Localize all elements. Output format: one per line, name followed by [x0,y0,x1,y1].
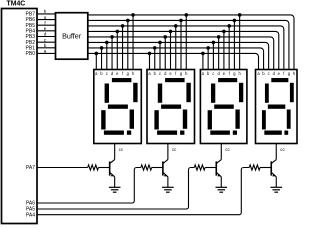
junction dot bus d / DS2 [163,35,167,39]
bus wire e from buffer to DS4 pin e [88,31,279,69]
junction dot bus e / DS3 [222,30,226,34]
svg-text:g: g [44,15,47,20]
wire tap DS1 pin b [101,48,103,70]
wire R1 to Q1 base [98,167,109,169]
svg-text:c: c [106,71,108,76]
svg-text:PB0: PB0 [26,51,36,57]
wire Q3 emitter to ground [220,177,222,188]
display DS1 (7-segment) [94,70,142,144]
junction dot bus a / DS2 [148,52,152,56]
svg-text:b: b [44,43,47,48]
wire tap DS3 pin d [218,37,220,70]
display DS2 (7-segment) [147,70,195,144]
display DS4 (7-segment) [256,70,298,144]
junction dot bus g / DS3 [233,19,237,23]
wire Q2 emitter to ground [167,177,169,188]
wire tap DS2 pin a [149,53,151,69]
wire tap DS1 pin f [122,26,124,70]
wire tap DS2 pin b [154,48,156,70]
svg-text:PA7: PA7 [26,165,35,171]
junction dot bus h / DS1 [131,13,135,17]
wire PA5 horizontal run [37,168,194,210]
bus wire c from buffer to DS4 pin c [88,42,269,69]
junction dot bus b / DS1 [100,46,104,50]
svg-text:Buffer: Buffer [62,31,82,40]
resistor R1 [88,165,99,170]
junction dot bus c / DS1 [105,41,109,45]
junction dot bus g / DS1 [126,19,130,23]
transistor Q3 NPN [216,160,221,177]
bus wire a from buffer to DS4 pin a [88,53,259,69]
wire tap DS2 pin c [159,42,161,69]
wire tap DS2 pin e [170,31,172,69]
junction dot bus b / DS2 [153,46,157,50]
wire tap DS2 pin h [185,15,187,70]
junction dot bus d / DS3 [217,35,221,39]
junction dot bus e / DS2 [169,30,173,34]
wire DS2 common cathode pin [167,144,169,160]
transistor Q1 NPN [110,160,115,177]
wire tap DS1 pin a [95,53,97,69]
bus wire b from buffer to DS4 pin b [88,48,264,70]
ground symbol G4 [270,187,282,192]
wire R4 to Q4 base [260,167,271,169]
bus wire h from buffer to DS4 pin h [88,15,294,70]
junction dot bus h / DS3 [238,13,242,17]
svg-text:e: e [44,26,47,31]
resistor R4 [249,165,260,170]
resistor R2 [141,165,152,170]
ground symbol G1 [109,187,121,192]
wire tap DS3 pin g [233,20,235,69]
junction dot bus f / DS1 [121,24,125,28]
wire tap DS2 pin g [180,20,182,69]
transistor Q4 NPN [271,160,276,177]
svg-text:TM4C: TM4C [7,0,26,7]
wire tap DS2 pin d [164,37,166,70]
junction dot bus f / DS3 [227,24,231,28]
wire DS4 common cathode pin [275,144,277,160]
junction dot bus h / DS2 [184,13,188,17]
wire PB7 to buffer input h [37,13,56,15]
junction dot bus c / DS2 [158,41,162,45]
wire tap DS3 pin a [202,53,204,69]
wire DS3 common cathode pin [220,144,222,160]
resistor R3 [194,165,205,170]
bus wire d from buffer to DS4 pin d [88,37,274,70]
wire PB3 to buffer input d [37,36,56,38]
bus wire f from buffer to DS4 pin f [88,26,284,70]
wire PB6 to buffer input g [37,19,56,21]
display DS3 (7-segment) [200,70,247,144]
wire Q1 emitter to ground [114,177,116,188]
svg-text:PA4: PA4 [26,212,35,218]
wire DS1 common cathode pin [114,144,116,160]
wire R2 to Q2 base [152,167,163,169]
wire PB4 to buffer input e [37,30,56,32]
ground symbol G3 [215,187,227,192]
wire tap DS2 pin f [175,26,177,70]
buffer U2 [56,13,88,60]
IC U1 TM4C microcontroller [2,9,38,224]
wire PB2 to buffer input c [37,41,56,43]
junction dot bus c / DS3 [212,41,216,45]
svg-text:c: c [159,71,161,76]
junction dot bus a / DS3 [201,52,205,56]
wire tap DS3 pin c [212,42,214,69]
junction dot bus b / DS3 [206,46,210,50]
svg-text:c: c [268,71,270,76]
wire tap DS1 pin c [106,42,108,69]
svg-text:h: h [44,9,47,14]
wire tap DS1 pin d [111,37,113,70]
wire PB1 to buffer input b [37,47,56,49]
wire tap DS1 pin h [132,15,134,70]
wire PA6 horizontal run [37,168,141,204]
wire Q4 emitter to ground [275,177,277,188]
junction dot bus g / DS2 [179,19,183,23]
wire tap DS1 pin g [127,20,129,69]
wire R3 to Q3 base [205,167,216,169]
transistor Q2 NPN [163,160,168,177]
bus wire g from buffer to DS4 pin g [88,20,289,69]
ground symbol G2 [162,187,174,192]
wire PA4 horizontal run [37,168,249,215]
wire tap DS3 pin f [228,26,230,70]
svg-text:a: a [44,49,47,54]
wire tap DS3 pin b [207,48,209,70]
svg-text:c: c [212,71,214,76]
junction dot bus e / DS1 [116,30,120,34]
junction dot bus d / DS1 [110,35,114,39]
svg-text:d: d [44,32,47,37]
wire tap DS3 pin e [223,31,225,69]
wire PA7 to R1 [37,167,88,169]
junction dot bus a / DS1 [95,52,99,56]
wire tap DS1 pin e [116,31,118,69]
wire PB5 to buffer input f [37,24,56,26]
junction dot bus f / DS2 [174,24,178,28]
wire tap DS3 pin h [239,15,241,70]
wire PB0 to buffer input a [37,52,56,54]
